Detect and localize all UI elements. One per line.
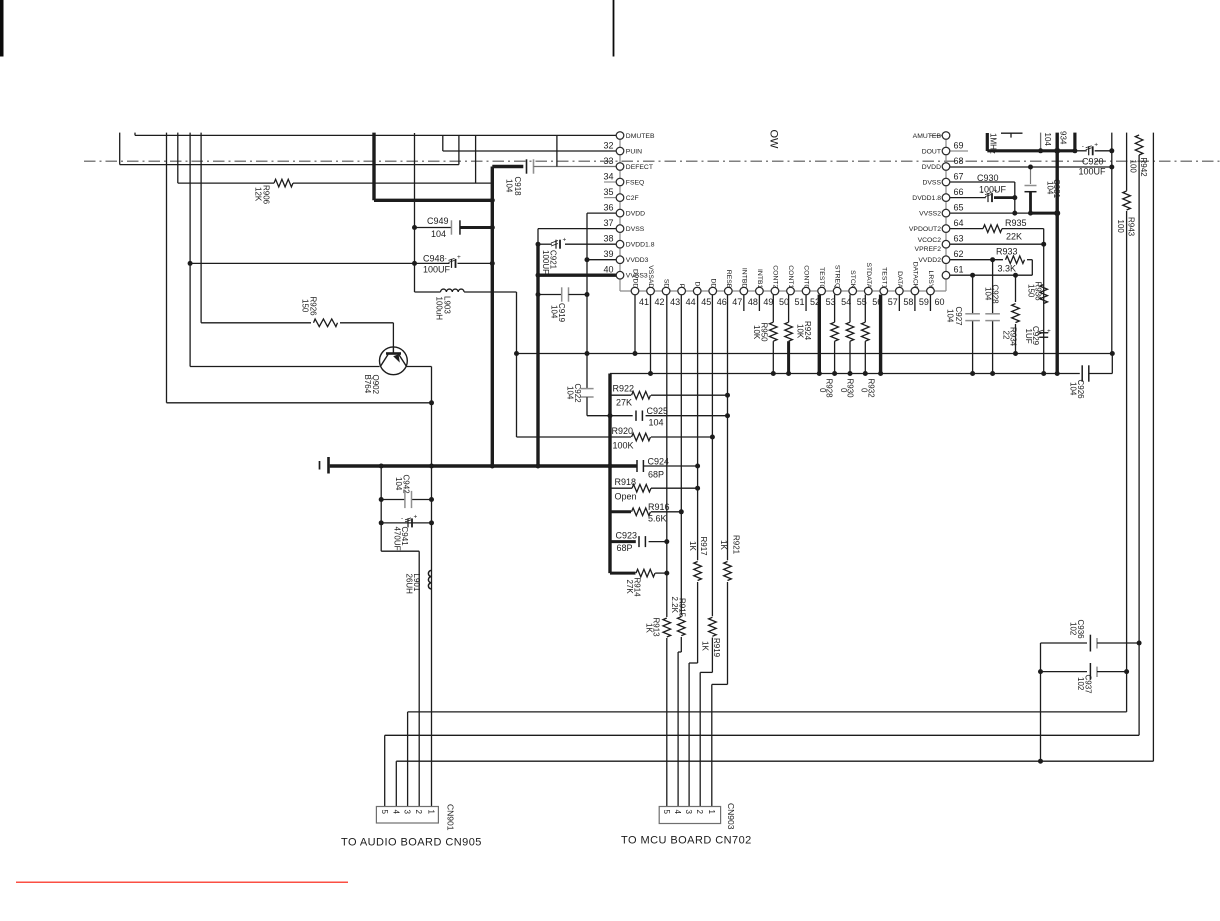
svg-text:R919: R919 — [712, 638, 721, 658]
svg-text:40: 40 — [603, 265, 613, 275]
svg-text:104: 104 — [505, 179, 514, 193]
svg-text:64: 64 — [954, 218, 964, 228]
svg-text:R936: R936 — [1034, 282, 1043, 302]
svg-text:3: 3 — [403, 810, 412, 815]
svg-text:1: 1 — [707, 810, 716, 815]
svg-text:OW: OW — [768, 130, 780, 150]
svg-text:CN901: CN901 — [446, 804, 456, 831]
svg-text:VPREF2: VPREF2 — [915, 246, 942, 253]
svg-text:R920: R920 — [612, 426, 634, 436]
svg-text:+: + — [563, 237, 567, 244]
svg-text:35: 35 — [603, 187, 613, 197]
svg-text:C919: C919 — [557, 303, 566, 323]
svg-text:CN903: CN903 — [726, 803, 736, 830]
svg-text:2: 2 — [414, 810, 423, 815]
svg-text:100: 100 — [1129, 160, 1138, 174]
svg-text:DVDD: DVDD — [626, 211, 645, 218]
svg-text:C928: C928 — [991, 285, 1000, 305]
svg-text:49: 49 — [763, 297, 773, 307]
svg-text:43: 43 — [670, 297, 680, 307]
svg-text:R928: R928 — [825, 379, 834, 399]
svg-text:100UF: 100UF — [423, 265, 451, 275]
svg-text:4: 4 — [391, 810, 400, 815]
svg-text:RESB: RESB — [725, 270, 732, 289]
svg-text:4: 4 — [673, 810, 682, 815]
svg-text:DATA: DATA — [896, 271, 903, 289]
svg-text:C949: C949 — [427, 216, 449, 226]
svg-text:C937: C937 — [1084, 675, 1093, 695]
svg-text:62: 62 — [954, 249, 964, 259]
svg-text:LRSY: LRSY — [927, 271, 934, 289]
svg-text:R926: R926 — [309, 297, 318, 317]
svg-text:47: 47 — [732, 297, 742, 307]
svg-text:R930: R930 — [846, 379, 855, 399]
svg-text:R921: R921 — [732, 535, 741, 555]
svg-text:R935: R935 — [1005, 218, 1027, 228]
svg-text:59: 59 — [919, 297, 929, 307]
svg-text:33: 33 — [603, 156, 613, 166]
svg-text:Open: Open — [615, 492, 637, 502]
svg-text:44: 44 — [686, 297, 696, 307]
svg-text:DVSS: DVSS — [922, 179, 941, 186]
svg-text:12K: 12K — [254, 187, 263, 202]
svg-text:3: 3 — [684, 810, 693, 815]
svg-text:C948: C948 — [423, 254, 445, 264]
svg-text:INTBD: INTBD — [740, 268, 747, 288]
svg-text:3.3K: 3.3K — [998, 264, 1017, 274]
svg-text:37: 37 — [603, 218, 613, 228]
svg-text:+: + — [414, 513, 418, 520]
svg-text:DVDD1.8: DVDD1.8 — [912, 195, 941, 202]
svg-text:VVSS2: VVSS2 — [919, 211, 941, 218]
svg-text:DEFECT: DEFECT — [626, 164, 653, 171]
svg-text:934: 934 — [1059, 131, 1068, 145]
svg-text:CONT0: CONT0 — [803, 265, 810, 288]
svg-text:-: - — [401, 515, 403, 522]
svg-text:SD: SD — [663, 279, 670, 289]
svg-text:STDATA: STDATA — [865, 262, 872, 288]
svg-text:R922: R922 — [613, 384, 635, 394]
svg-text:TEST1: TEST1 — [880, 267, 887, 288]
svg-text:Q902: Q902 — [371, 375, 380, 395]
svg-text:INTB1: INTB1 — [756, 269, 763, 288]
svg-text:5: 5 — [662, 810, 671, 815]
svg-text:TEST0: TEST0 — [818, 267, 825, 288]
svg-text:150: 150 — [301, 299, 310, 313]
svg-text:DVDD1.8: DVDD1.8 — [626, 242, 655, 249]
svg-text:68P: 68P — [617, 543, 633, 553]
svg-text:VSSAD: VSSAD — [647, 265, 654, 288]
svg-text:VVDD2: VVDD2 — [918, 257, 941, 264]
svg-text:100: 100 — [1116, 220, 1125, 234]
svg-text:C921: C921 — [549, 250, 558, 270]
svg-text:R932: R932 — [867, 379, 876, 399]
svg-text:100K: 100K — [613, 441, 634, 451]
svg-text:DMUTEB: DMUTEB — [626, 133, 655, 140]
svg-text:VPDOUT2: VPDOUT2 — [909, 226, 941, 233]
svg-text:R914: R914 — [633, 578, 642, 598]
svg-text:1K: 1K — [688, 541, 697, 551]
svg-text:R918: R918 — [615, 477, 637, 487]
svg-text:63: 63 — [954, 234, 964, 244]
svg-text:R915: R915 — [678, 598, 687, 618]
svg-text:48: 48 — [748, 297, 758, 307]
svg-text:-: - — [1082, 143, 1084, 150]
svg-text:STCK: STCK — [849, 270, 856, 289]
svg-text:45: 45 — [701, 297, 711, 307]
svg-text:-: - — [445, 255, 447, 262]
svg-text:104: 104 — [649, 418, 664, 428]
svg-text:FSEQ: FSEQ — [626, 179, 645, 186]
svg-text:STREQ: STREQ — [834, 265, 841, 288]
svg-text:60: 60 — [934, 297, 944, 307]
svg-text:L903: L903 — [443, 296, 452, 314]
svg-text:C923: C923 — [616, 531, 638, 541]
svg-text:B764: B764 — [363, 375, 372, 394]
svg-text:38: 38 — [603, 234, 613, 244]
svg-text:65: 65 — [954, 203, 964, 213]
svg-text:TO AUDIO BOARD CN905: TO AUDIO BOARD CN905 — [341, 837, 482, 849]
svg-text:R917: R917 — [699, 537, 708, 557]
svg-text:AMUTEB: AMUTEB — [913, 133, 942, 140]
svg-text:TO MCU BOARD CN702: TO MCU BOARD CN702 — [621, 835, 752, 847]
svg-text:R924: R924 — [803, 321, 812, 341]
svg-text:C926: C926 — [1076, 380, 1085, 400]
svg-text:R916: R916 — [648, 502, 670, 512]
svg-text:C936: C936 — [1076, 620, 1085, 640]
svg-text:50: 50 — [779, 297, 789, 307]
svg-text:1K: 1K — [701, 641, 710, 651]
svg-text:104: 104 — [946, 309, 955, 323]
svg-text:C2F: C2F — [626, 195, 639, 202]
svg-text:5.6K: 5.6K — [648, 514, 667, 524]
svg-text:R913: R913 — [652, 618, 661, 638]
svg-text:C930: C930 — [977, 173, 999, 183]
svg-text:41: 41 — [639, 297, 649, 307]
svg-text:2: 2 — [695, 810, 704, 815]
svg-text:58: 58 — [903, 297, 913, 307]
svg-text:68: 68 — [954, 156, 964, 166]
svg-text:42: 42 — [655, 297, 665, 307]
svg-text:C929: C929 — [1031, 326, 1040, 346]
svg-text:27K: 27K — [616, 398, 632, 408]
svg-text:R933: R933 — [996, 247, 1018, 257]
svg-text:VCOC2: VCOC2 — [918, 237, 942, 244]
svg-text:66: 66 — [954, 187, 964, 197]
svg-text:100uH: 100uH — [435, 297, 444, 321]
svg-text:53: 53 — [826, 297, 836, 307]
svg-text:PUIN: PUIN — [626, 148, 642, 155]
svg-text:L901: L901 — [412, 574, 421, 592]
svg-text:DD: DD — [709, 278, 716, 288]
svg-text:R943: R943 — [1127, 217, 1136, 237]
svg-text:104: 104 — [431, 229, 446, 239]
svg-text:C918: C918 — [513, 177, 522, 197]
svg-text:104: 104 — [1043, 133, 1052, 147]
svg-text:32: 32 — [603, 140, 613, 150]
svg-text:1MHz: 1MHz — [989, 133, 998, 154]
svg-text:R942: R942 — [1139, 158, 1148, 178]
svg-text:68P: 68P — [648, 470, 664, 480]
svg-text:1K: 1K — [719, 540, 728, 550]
svg-text:57: 57 — [888, 297, 898, 307]
svg-text:R906: R906 — [262, 185, 271, 205]
svg-text:36: 36 — [603, 203, 613, 213]
svg-text:VVDD3: VVDD3 — [626, 257, 649, 264]
svg-text:C941: C941 — [400, 527, 409, 547]
svg-text:C920: C920 — [1082, 157, 1104, 167]
svg-text:DVSS: DVSS — [626, 226, 645, 233]
svg-text:DOUT: DOUT — [922, 148, 941, 155]
svg-text:69: 69 — [954, 140, 964, 150]
svg-text:100UF: 100UF — [1079, 167, 1107, 177]
svg-text:34: 34 — [603, 171, 613, 181]
svg-text:DVDD: DVDD — [632, 269, 639, 288]
svg-text:52: 52 — [810, 297, 820, 307]
svg-text:+: + — [1047, 328, 1051, 335]
svg-text:DATACK: DATACK — [911, 262, 918, 289]
svg-text:+: + — [457, 254, 461, 261]
svg-text:C922: C922 — [573, 384, 582, 404]
svg-text:100UF: 100UF — [979, 185, 1007, 195]
svg-text:+: + — [1094, 141, 1098, 148]
svg-text:51: 51 — [795, 297, 805, 307]
svg-text:CONT2: CONT2 — [771, 265, 778, 288]
svg-text:39: 39 — [603, 249, 613, 259]
svg-text:CONT1: CONT1 — [787, 265, 794, 288]
svg-text:61: 61 — [954, 265, 964, 275]
svg-text:5: 5 — [380, 810, 389, 815]
svg-text:55: 55 — [857, 297, 867, 307]
svg-text:54: 54 — [841, 297, 851, 307]
svg-text:R934: R934 — [1009, 327, 1018, 347]
svg-text:67: 67 — [954, 171, 964, 181]
svg-text:P: P — [678, 284, 685, 289]
svg-text:C927: C927 — [954, 307, 963, 327]
svg-text:C942: C942 — [402, 475, 411, 495]
svg-text:C931: C931 — [1052, 179, 1061, 199]
svg-text:46: 46 — [717, 297, 727, 307]
svg-text:C925: C925 — [647, 406, 669, 416]
svg-text:56: 56 — [872, 297, 882, 307]
svg-text:DI: DI — [694, 281, 701, 288]
svg-text:C924: C924 — [648, 457, 670, 467]
svg-text:22K: 22K — [1006, 232, 1022, 242]
svg-text:R950: R950 — [760, 323, 769, 343]
svg-text:1: 1 — [427, 810, 436, 815]
svg-text:DVDD: DVDD — [922, 164, 941, 171]
